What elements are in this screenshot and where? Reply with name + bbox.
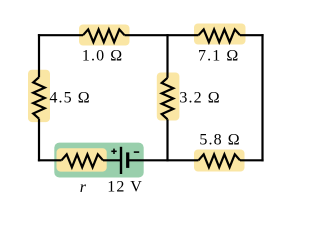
- resistor 4.5 ohm zigzag: [33, 77, 45, 119]
- wire: middle branch, upper segment: [166, 34, 168, 78]
- resistor r zigzag: [62, 154, 104, 167]
- resistor 5.8 ohm zigzag: [199, 154, 241, 167]
- wire: top side, middle segment: [125, 34, 199, 36]
- battery plus sign: [111, 149, 116, 154]
- svg-text:3.2 Ω: 3.2 Ω: [179, 90, 220, 107]
- battery block highlight (green): [54, 143, 143, 178]
- wire: bottom side, corner to resistor r: [38, 159, 62, 161]
- battery negative plate (short, thick): [126, 152, 129, 168]
- wire: top side, left segment: [38, 34, 83, 36]
- wire: top side, right segment: [240, 34, 264, 36]
- wire: bottom side, right segment: [240, 159, 264, 161]
- resistor 1.0 ohm highlight: [79, 25, 130, 46]
- wire: right side: [261, 34, 263, 161]
- resistor 7.1 ohm highlight: [194, 24, 246, 45]
- wire: left side, lower segment: [38, 119, 40, 162]
- wire: resistor r to battery positive plate: [103, 159, 121, 161]
- battery minus sign: [134, 151, 139, 153]
- resistor 3.2 ohm highlight: [157, 73, 180, 121]
- wire: battery to middle junction: [128, 159, 199, 161]
- svg-text:1.0 Ω: 1.0 Ω: [82, 48, 123, 65]
- resistor r highlight (yellow inside green): [57, 148, 107, 171]
- svg-text:r: r: [80, 179, 87, 196]
- resistor 7.1 ohm zigzag: [199, 29, 241, 42]
- resistor 5.8 ohm highlight: [194, 150, 245, 172]
- svg-text:12 V: 12 V: [107, 179, 143, 196]
- resistor 1.0 ohm zigzag: [83, 29, 125, 42]
- wire: middle branch, lower segment: [166, 119, 168, 161]
- resistor 3.2 ohm zigzag: [162, 78, 174, 120]
- svg-text:4.5 Ω: 4.5 Ω: [49, 90, 90, 107]
- svg-text:7.1 Ω: 7.1 Ω: [198, 48, 239, 65]
- resistor 4.5 ohm highlight: [28, 70, 50, 122]
- wire: left side, upper segment: [38, 34, 40, 77]
- battery positive plate (long): [120, 147, 122, 174]
- svg-text:5.8 Ω: 5.8 Ω: [199, 132, 240, 149]
